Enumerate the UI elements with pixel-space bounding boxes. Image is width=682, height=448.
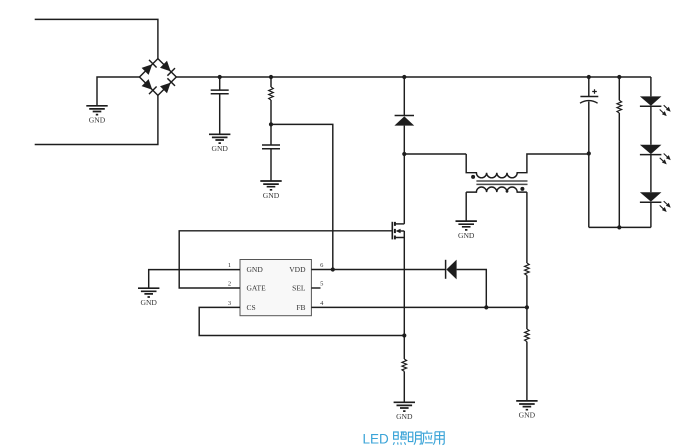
ground GND1 (bridge) — [86, 106, 107, 115]
svg-text:GND: GND — [396, 412, 413, 421]
wire pin4 FB to divider — [311, 306, 527, 308]
svg-text:GATE: GATE — [247, 284, 267, 293]
svg-text:5: 5 — [320, 281, 323, 288]
LED D3 arrows — [660, 105, 671, 116]
wire source down to sense resistor — [403, 238, 405, 360]
svg-text:1: 1 — [228, 262, 231, 269]
transformer T1 core — [476, 181, 527, 184]
ground GND2 (C1) — [209, 134, 230, 143]
wire pin3 CS loop to source node — [199, 307, 404, 335]
transformer T1 secondary phase dot — [520, 187, 524, 191]
transformer T1 primary phase dot — [471, 175, 475, 179]
svg-text:GND: GND — [140, 298, 157, 307]
wire drain branch lower — [403, 126, 405, 224]
LED D4 triangle and bar — [640, 145, 662, 155]
svg-text:GND: GND — [211, 144, 228, 153]
diode D2 triangle — [446, 260, 456, 280]
bridge diode bottom-right — [160, 78, 175, 93]
caption chinese glyph zhao — [393, 432, 406, 445]
resistor R4 leads — [526, 307, 528, 401]
wire secondary left lead to ground — [465, 192, 467, 221]
svg-text:GND: GND — [263, 191, 280, 200]
diode D1 freewheel cathode bar — [395, 115, 414, 117]
wire main rectified rail — [176, 76, 651, 78]
ground GND7 (divider) — [516, 401, 537, 410]
resistor R5 leads — [618, 77, 620, 227]
svg-text:CS: CS — [247, 303, 256, 312]
capacitor C1 leads — [219, 77, 221, 134]
caption chinese glyph yong — [433, 432, 444, 445]
ground GND3 (C2) — [260, 181, 281, 190]
resistor R1 zigzag — [269, 87, 274, 100]
svg-text:GND: GND — [247, 265, 264, 274]
wire bridge left vertex to ground — [97, 77, 140, 106]
capacitor C3 output electrolytic leads — [588, 77, 590, 227]
capacitor C2 leads — [270, 124, 272, 181]
svg-text:4: 4 — [320, 300, 324, 307]
capacitor C3 top plate — [580, 96, 598, 98]
transformer T1 secondary winding — [466, 187, 527, 192]
resistor R1 leads — [270, 77, 272, 124]
svg-text:GND: GND — [89, 116, 106, 125]
wire drain node to primary — [404, 153, 466, 155]
wire pin2 GATE loop to MOSFET gate — [179, 231, 392, 288]
LED D5 arrows — [660, 201, 671, 212]
bridge diode top-left — [142, 60, 157, 75]
svg-text:GND: GND — [458, 231, 475, 240]
capacitor C1 plates — [211, 90, 229, 94]
svg-text:3: 3 — [228, 300, 231, 307]
resistor R3 zigzag — [525, 263, 530, 275]
MOSFET Q1 source lead — [395, 231, 404, 238]
svg-text:GND: GND — [519, 411, 536, 420]
transformer T1 primary winding — [466, 154, 589, 178]
wire diode D2 anode to FB node — [457, 270, 487, 308]
diode D1 freewheel triangle — [394, 116, 414, 125]
resistor R5 zigzag — [617, 100, 622, 113]
svg-text:2: 2 — [228, 281, 231, 288]
wire AC input bottom line — [35, 95, 158, 144]
IC U1 body — [240, 260, 311, 316]
wire R3 to FB node — [526, 275, 528, 307]
svg-text:SEL: SEL — [292, 284, 306, 293]
ground GND6 (sense) — [394, 402, 415, 411]
bridge diode bottom-left — [142, 79, 157, 94]
bridge rectifier BR1 diamond — [140, 59, 177, 96]
transformer T1 secondary valley dot — [506, 190, 509, 193]
LED D3 triangle and bar — [640, 96, 662, 106]
diode D2 cathode bar — [445, 260, 447, 279]
MOSFET Q1 channel segments — [394, 222, 396, 240]
bridge diode top-right — [160, 61, 175, 76]
MOSFET Q1 drain lead — [395, 223, 404, 225]
wire output bottom rail — [589, 226, 651, 228]
capacitor C3 plus sign — [592, 89, 597, 94]
svg-text:VDD: VDD — [289, 265, 306, 274]
resistor R4 zigzag — [525, 329, 530, 342]
caption chinese glyph ying — [422, 431, 433, 445]
caption chinese glyph ming — [408, 432, 421, 445]
LED D5 triangle and bar — [640, 192, 662, 202]
LED string wire — [650, 77, 652, 227]
wire pin6 VDD to diode D2 — [311, 269, 445, 271]
wire drain branch upper — [403, 77, 405, 115]
svg-text:6: 6 — [320, 262, 324, 269]
svg-text:FB: FB — [296, 303, 305, 312]
capacitor C3 curved plate — [580, 101, 598, 104]
wire secondary right lead — [526, 192, 528, 263]
resistor R2 zigzag — [402, 359, 407, 371]
wire AC input top line — [35, 19, 158, 58]
wire VDD feed from R1/C2 node — [271, 124, 333, 269]
MOSFET Q1 gate bar — [391, 222, 393, 240]
capacitor C2 plates — [262, 145, 280, 149]
LED D4 arrows — [660, 154, 671, 165]
wire pin5 SEL stub — [311, 287, 320, 289]
svg-text:LED: LED — [363, 432, 390, 447]
ground GND4 (IC) — [138, 288, 159, 297]
MOSFET Q1 body lead with arrow — [396, 229, 405, 234]
ground GND5 (secondary) — [456, 221, 477, 230]
wire pin1 GND to ground — [149, 270, 240, 289]
wire R2 to ground — [403, 371, 405, 402]
